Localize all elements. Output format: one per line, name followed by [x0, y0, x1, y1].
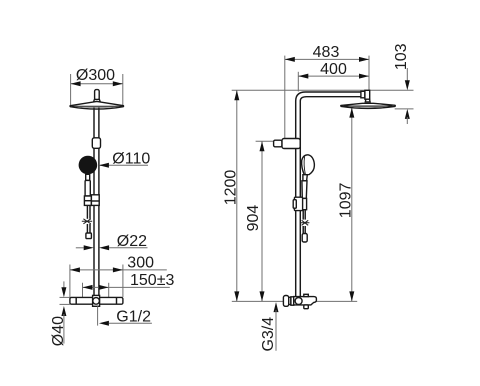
top reference line	[232, 89, 414, 91]
hose lower	[86, 224, 88, 233]
wall bracket knob	[274, 140, 282, 147]
arrow 1200 bottom	[234, 291, 239, 301]
head bottom band	[71, 106, 122, 108]
leader G1/2	[109, 322, 152, 324]
blade inner line	[304, 157, 305, 175]
slider split line	[91, 200, 99, 202]
valve knob side	[283, 296, 288, 307]
svg-text:1200: 1200	[222, 170, 239, 206]
handle neck	[86, 174, 90, 180]
svg-text:G3/4: G3/4	[260, 317, 277, 352]
valve bar	[70, 297, 123, 304]
valve body side	[294, 297, 317, 305]
extension 904	[256, 140, 281, 142]
hose end fitting	[86, 233, 92, 239]
svg-text:Ø110: Ø110	[112, 150, 150, 167]
arrow 1200 top	[234, 90, 239, 100]
riser pipe left edge with curve into arm	[296, 92, 361, 297]
hose kink mark	[82, 219, 92, 224]
valve center block	[93, 295, 100, 306]
dimension line Ø300	[71, 83, 123, 85]
extension 483/400 right	[368, 56, 370, 91]
extension line 150 left	[82, 283, 84, 297]
svg-text:150±3: 150±3	[130, 272, 174, 289]
hose end fitting right fig	[302, 234, 307, 243]
hand shower blade	[302, 155, 315, 175]
pipe connector sleeve	[92, 138, 100, 149]
arrow 483 left	[285, 57, 295, 62]
arrow 400 left	[298, 74, 308, 79]
arrow 300 left	[70, 267, 80, 272]
arrow 1097 bottom	[349, 291, 354, 301]
arm end neck	[361, 91, 365, 98]
slider block on pipe	[91, 195, 99, 206]
handle coupler split line	[84, 200, 91, 202]
dim Ø22 right line	[109, 247, 147, 249]
riser pipe right edge with curve into arm	[300, 97, 361, 298]
valve body circle	[295, 298, 302, 305]
dim 1200 line	[236, 90, 238, 301]
pipe left edge	[93, 108, 95, 297]
hose upper right fig	[302, 210, 304, 220]
arrow 483 right	[359, 57, 369, 62]
slider bracket	[294, 197, 302, 210]
valve neck side	[289, 297, 291, 304]
hose lower right fig	[302, 226, 304, 234]
hose kink mark right fig	[300, 220, 309, 225]
arrow 150 left	[83, 285, 93, 290]
extension 103 bottom	[395, 108, 414, 110]
arrow 150 right	[99, 285, 109, 290]
valve bottom extension	[60, 303, 70, 305]
hand shower circle	[79, 156, 98, 175]
dimension line 300	[70, 269, 167, 271]
valve top tab	[304, 294, 309, 296]
rain shower head front	[70, 101, 124, 109]
svg-text:Ø40: Ø40	[50, 316, 67, 346]
dim 483 line	[285, 58, 369, 60]
head side bottom band	[343, 106, 393, 108]
valve outlet line	[97, 306, 99, 325]
slider knob	[293, 200, 296, 209]
arrow 904 top	[260, 141, 265, 151]
dimension line 150	[83, 286, 170, 288]
svg-text:300: 300	[127, 255, 154, 272]
dim Ø22 left line	[76, 247, 84, 249]
arrow 103 up	[405, 109, 410, 119]
arrow Ø22 left	[84, 245, 94, 250]
valve bottom outlet	[304, 305, 309, 309]
dim 103 bottom line	[406, 117, 408, 124]
svg-text:Ø22: Ø22	[117, 233, 147, 250]
hand shower grip	[302, 181, 307, 199]
handle grip	[85, 180, 90, 196]
dim 904 line	[261, 141, 263, 301]
hand shower coupler	[302, 198, 307, 209]
valve collar side	[291, 297, 294, 305]
arrow Ø110	[99, 163, 109, 168]
arrow Ø40 down	[61, 287, 66, 297]
arrow G3/4	[274, 302, 279, 312]
dim 103 top line	[406, 68, 408, 81]
valve left cap line	[75, 297, 77, 304]
svg-text:483: 483	[313, 44, 340, 61]
dim 400 line	[298, 75, 369, 77]
extension line Ø300 left	[70, 74, 72, 105]
arm end stem	[365, 99, 370, 102]
arrow Ø22 right	[99, 245, 109, 250]
extension line 300 left	[69, 265, 71, 298]
stem above head	[95, 90, 100, 100]
extension line 150 right	[108, 283, 110, 297]
bottom reference line	[232, 300, 357, 302]
arrow Ø300 right	[113, 81, 123, 86]
valve top extension	[60, 296, 70, 298]
extension line 300 right	[122, 265, 124, 298]
extension line Ø300 right	[122, 74, 124, 105]
arrow 904 bottom	[260, 291, 265, 301]
arrow 103 down	[405, 80, 410, 90]
arrow Ø40 up	[61, 306, 66, 316]
svg-text:Ø300: Ø300	[76, 67, 115, 84]
rain head side view	[341, 103, 396, 108]
valve right cap line	[116, 297, 118, 304]
hand shower neck	[303, 175, 307, 181]
svg-text:G1/2: G1/2	[116, 309, 151, 326]
head side inner line	[344, 105, 393, 107]
valve center knob	[93, 298, 100, 305]
handle coupler	[84, 196, 91, 205]
svg-text:1097: 1097	[337, 183, 354, 219]
arrow G1/2	[99, 321, 109, 326]
stem flare	[94, 99, 101, 102]
pipe right edge	[98, 108, 100, 297]
hose upper	[86, 205, 88, 218]
arrow Ø300 left	[71, 81, 81, 86]
wall bracket body	[282, 139, 300, 149]
arrow 1097 top	[349, 108, 354, 118]
dim Ø40 lower line	[63, 314, 65, 344]
arrow 300 right	[113, 267, 123, 272]
arm end block	[365, 90, 370, 99]
arrow 400 right	[359, 74, 369, 79]
leader line Ø110	[99, 164, 148, 166]
dim 1097 line	[351, 108, 353, 302]
svg-text:400: 400	[320, 61, 347, 78]
extension 400 left	[297, 72, 299, 92]
head inner line	[72, 105, 122, 107]
leader G3/4	[275, 310, 277, 351]
svg-text:103: 103	[393, 43, 410, 70]
dim Ø40 upper line	[63, 281, 65, 289]
extension 483 left	[284, 56, 286, 140]
svg-text:904: 904	[245, 205, 262, 232]
